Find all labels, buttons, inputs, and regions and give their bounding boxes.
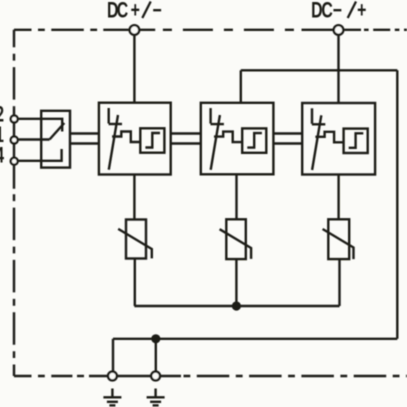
ground symbol left (103, 389, 121, 406)
switch S1 box (41, 111, 70, 168)
arrester module U3 box (302, 103, 375, 175)
terminal PE left (108, 372, 117, 381)
enclosure boundary top dash-dot line (14, 29, 103, 31)
wire varistor R1 bottom lead (134, 259, 136, 307)
terminal DC+/- (130, 25, 140, 35)
wire monitoring bus U1-U2 upper (171, 132, 201, 134)
svg-text:+: + (131, 0, 140, 23)
junction dot PE line (151, 334, 160, 343)
wire FM terminal 14 line (14, 149, 61, 161)
wire varistor R2 bottom lead (235, 259, 237, 307)
svg-text:C: C (117, 0, 129, 23)
wire FM terminal 12 line (14, 119, 62, 132)
wire U2 top stub (240, 70, 242, 103)
svg-text:−: − (333, 0, 342, 23)
wire U1 bottom lead (133, 175, 135, 220)
wire right vertical PE (396, 70, 398, 339)
arrester module U1 symbol (109, 108, 165, 170)
ground symbol right (147, 389, 165, 406)
label DC+/- (107, 0, 162, 23)
switch S1 blade (50, 123, 65, 140)
junction dot varistor bus (232, 301, 241, 310)
wire FM terminal 11 line (14, 138, 49, 140)
terminal FM 11 (11, 137, 18, 144)
wire left ground drop (112, 339, 114, 376)
terminal PE right (151, 372, 160, 381)
arrester module U2 box (201, 103, 274, 175)
varistor R1 (118, 220, 152, 259)
enclosure boundary bottom dash-dot line (14, 375, 72, 377)
enclosure boundary left dash-dot line (13, 30, 15, 107)
terminal FM 14 (11, 158, 18, 165)
wire varistor common bus (134, 305, 339, 307)
wire varistor R3 bottom lead (338, 259, 340, 307)
arrester module U2 symbol (211, 108, 267, 170)
wire monitoring bus S1-U1 lower (70, 142, 99, 144)
label DC-/+ (311, 0, 366, 23)
wire U2 bottom lead (235, 174, 237, 219)
wire PE horizontal to U2 top (241, 69, 397, 71)
varistor R2 (220, 219, 252, 259)
wire bottom PE line (113, 338, 397, 340)
arrester module U3 symbol (312, 108, 368, 170)
wire right ground drop (155, 339, 157, 376)
wire monitoring bus U2-U3 lower (273, 142, 302, 144)
wire DC-/+ drop to U3 (337, 30, 339, 103)
wire U3 bottom lead (337, 175, 339, 220)
varistor R3 (323, 219, 354, 259)
terminal FM 12 (11, 116, 18, 123)
terminal DC-/+ (334, 25, 344, 35)
svg-text:−: − (152, 0, 161, 23)
arrester module U1 box (99, 103, 171, 175)
svg-text:+: + (357, 0, 366, 23)
wire monitoring bus U1-U2 lower (171, 142, 201, 144)
svg-text:C: C (321, 0, 333, 23)
wire monitoring bus U2-U3 upper (273, 132, 302, 134)
wire DC+/- drop to U1 (133, 30, 135, 103)
wire monitoring bus S1-U1 upper (70, 132, 99, 134)
svg-text:14: 14 (0, 144, 4, 168)
